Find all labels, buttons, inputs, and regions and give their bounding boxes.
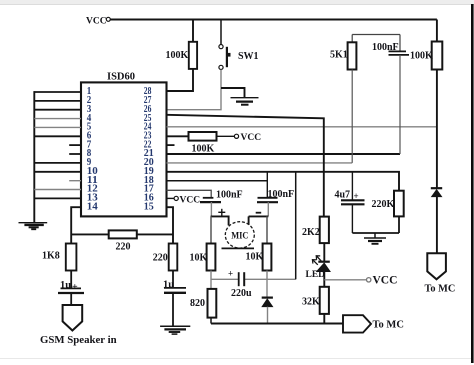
resistor 820 (vertical) xyxy=(190,289,216,318)
svg-text:100nF: 100nF xyxy=(216,190,243,201)
svg-text:+: + xyxy=(228,269,233,279)
resistor 2K2 (vertical) xyxy=(302,217,329,244)
wire cap bottom riser to pin21 line xyxy=(399,55,401,154)
svg-text:100K: 100K xyxy=(192,144,215,155)
wire 220 to cap 1u right xyxy=(172,271,174,288)
LED D3 xyxy=(306,256,331,280)
microphone MIC xyxy=(222,222,255,249)
wire pin 14 down-left column xyxy=(71,207,81,243)
capacitor 100nF (mic left) xyxy=(200,190,243,203)
svg-text:220K: 220K xyxy=(372,199,395,210)
wire riser to 5K1 xyxy=(351,35,353,43)
wire left bus vertical xyxy=(33,91,35,222)
wire stub pin 7 xyxy=(69,144,81,146)
wire bus to pin 6 xyxy=(34,135,81,137)
svg-text:VCC: VCC xyxy=(373,275,398,287)
node VCC terminal (pin 16) xyxy=(167,195,201,205)
diode D1 (right column) xyxy=(431,188,442,197)
capacitor 1u (right) xyxy=(163,280,186,293)
wire diode D2 bottom xyxy=(267,307,269,324)
capacitor 4u7 (polarized) xyxy=(335,172,365,233)
wire LED to 32K xyxy=(323,272,325,287)
svg-text:10K: 10K xyxy=(190,253,208,264)
svg-text:2K2: 2K2 xyxy=(302,227,320,238)
svg-text:820: 820 xyxy=(190,298,205,309)
resistor 220K (vertical) xyxy=(372,191,404,217)
wire bus to pin 4 xyxy=(34,118,81,120)
wire SW1 bottom to IC pin 26 xyxy=(167,70,222,110)
wire branch to ground near SW1 xyxy=(221,88,245,97)
ground (under 4u7/220K) xyxy=(364,233,386,244)
wire mic output rail (gray) xyxy=(211,278,296,280)
wire 1K8 to cap 1u xyxy=(70,271,72,288)
wire 32K bottom to rail xyxy=(323,314,325,324)
wire bus to pin 12 xyxy=(34,189,81,191)
wire pin 15 down-right column xyxy=(167,207,174,243)
svg-text:To MC: To MC xyxy=(425,284,456,295)
wire 2K2 to LED xyxy=(323,243,325,262)
resistor 10K (right) xyxy=(246,244,272,271)
wire riser x295 to pin20 line xyxy=(295,172,297,279)
capacitor 220u (polarized, series) xyxy=(228,269,252,300)
capacitor 100nF (top right) xyxy=(372,35,409,55)
wire 10K right bottom to diode xyxy=(266,271,268,298)
IC U1 ISD60 body xyxy=(81,72,167,217)
svg-text:To MC: To MC xyxy=(373,320,404,331)
svg-text:220: 220 xyxy=(116,242,131,253)
wire 4u7/220K bottom rail xyxy=(352,232,399,234)
wire 100K bottom to IC pin 28 xyxy=(167,69,194,91)
connector To MC (right, pentagon down) xyxy=(425,253,456,294)
svg-text:5K1: 5K1 xyxy=(330,50,348,61)
capacitor 100nF (mic right) xyxy=(257,172,294,202)
svg-text:1u: 1u xyxy=(60,280,71,291)
wire VCC top rail xyxy=(110,19,437,21)
resistor 10K (left) xyxy=(190,244,216,271)
resistor 100K (horizontal mid) xyxy=(189,132,217,155)
wire cap to ground xyxy=(172,293,174,326)
resistor 5K1 (vertical) xyxy=(330,42,356,69)
svg-text:15: 15 xyxy=(144,200,154,212)
wire mic right riser xyxy=(267,202,269,216)
svg-text:220: 220 xyxy=(153,253,168,264)
wire diode to To MC connector xyxy=(436,197,438,253)
capacitor 1u+ (left, polarized) xyxy=(58,280,84,293)
svg-text:1K8: 1K8 xyxy=(42,251,60,262)
wire riser VCC to SW1 xyxy=(220,20,222,45)
svg-text:VCC: VCC xyxy=(241,133,262,143)
wire bus to pin 1 xyxy=(34,91,82,93)
U1 left pin numbers 1-14 xyxy=(87,85,99,212)
wire bus to pin 5 xyxy=(34,126,81,128)
wire bus to pin 10 xyxy=(34,171,81,173)
node VCC terminal (LED) xyxy=(367,275,398,287)
svg-text:14: 14 xyxy=(87,200,99,212)
svg-text:ISD60: ISD60 xyxy=(107,72,135,83)
wire top inner rail (5K1/100nF) xyxy=(352,34,400,36)
resistor 220 (vertical) xyxy=(153,244,178,271)
wire 10K left bottom xyxy=(210,271,212,289)
wire 5K1 bottom riser to pin20 line xyxy=(351,70,353,163)
wire bus to pin 9 xyxy=(34,162,81,164)
svg-text:100K: 100K xyxy=(166,50,189,61)
node VCC top-left terminal xyxy=(86,17,110,27)
switch SW1 (pushbutton) xyxy=(219,45,259,70)
wire pin 20 long to x352 (gray) xyxy=(167,162,353,164)
wire pin 23 to resistor xyxy=(167,135,189,137)
wire stub pin 22 xyxy=(167,144,175,146)
svg-text:4u7: 4u7 xyxy=(335,190,351,201)
svg-text:VCC: VCC xyxy=(180,195,201,205)
connector GSM speaker (pentagon) xyxy=(40,305,117,346)
svg-text:LED: LED xyxy=(306,270,326,280)
wire resistor to VCC terminal xyxy=(217,135,235,137)
wire 10K right column top xyxy=(266,216,268,243)
node + (mic left) xyxy=(218,209,225,216)
wire pin 17 to mic cap riser xyxy=(167,190,212,197)
svg-text:MIC: MIC xyxy=(231,231,248,241)
wire stub pin 11 xyxy=(69,180,81,182)
ground (left bus bottom) xyxy=(19,223,48,230)
svg-text:1u: 1u xyxy=(163,280,174,291)
U1 right pin numbers 28-15 xyxy=(144,85,154,212)
wire 100K right down to diode xyxy=(436,70,438,189)
wire 220K bottom to rail xyxy=(398,216,400,233)
resistor 1K8 (vertical) xyxy=(42,244,76,271)
node VCC terminal (mid) xyxy=(234,133,261,143)
ground (near SW1) xyxy=(231,98,259,105)
ground (under 1u right) xyxy=(160,326,190,334)
resistor 32K (vertical) xyxy=(302,287,329,314)
node - (mic right) xyxy=(256,212,262,214)
svg-text:GSM Speaker in: GSM Speaker in xyxy=(40,334,117,346)
wire 10K left column top xyxy=(210,216,212,243)
wire VCC rail corner to 100K right xyxy=(436,20,438,42)
wire bus to pin 2 xyxy=(34,100,81,102)
wire pin 24 to right column (gray) xyxy=(167,126,437,128)
wire pin 25 to 2K2 column xyxy=(167,115,324,217)
wire cap to speaker connector xyxy=(70,293,72,305)
svg-text:10K: 10K xyxy=(246,252,264,263)
wire bus to pin 3 xyxy=(34,109,81,111)
svg-text:VCC: VCC xyxy=(86,17,107,27)
wire pin 18 to mic right cap riser xyxy=(167,180,269,182)
svg-text:220u: 220u xyxy=(231,288,252,299)
resistor 100K (top left, vertical) xyxy=(166,42,198,69)
wire stub pin 8 xyxy=(69,153,81,155)
resistor 100K (top right, vertical) xyxy=(410,42,442,70)
wire bus to pin 13 xyxy=(34,197,81,199)
wire pin 19 long to 220K corner xyxy=(167,172,400,191)
wire bottom rail under IC xyxy=(71,233,173,235)
wire pin 21 long to x400 xyxy=(167,153,401,155)
wire mic left jog xyxy=(211,216,229,225)
wire LED junction to VCC (gray) xyxy=(324,279,366,281)
wire mic left riser xyxy=(210,202,212,216)
svg-text:32K: 32K xyxy=(302,297,320,308)
svg-text:100K: 100K xyxy=(410,51,433,62)
wire bottom output rail xyxy=(211,323,343,325)
wire 820 bottom xyxy=(210,318,212,324)
svg-text:SW1: SW1 xyxy=(238,51,259,62)
wire riser VCC to R 100K left xyxy=(192,20,194,42)
diode D2 (mic branch) xyxy=(262,298,273,307)
resistor 220 (horizontal under IC) xyxy=(109,230,137,252)
wire mic right jog xyxy=(249,216,269,225)
connector To MC (bottom, pentagon right) xyxy=(343,315,404,332)
